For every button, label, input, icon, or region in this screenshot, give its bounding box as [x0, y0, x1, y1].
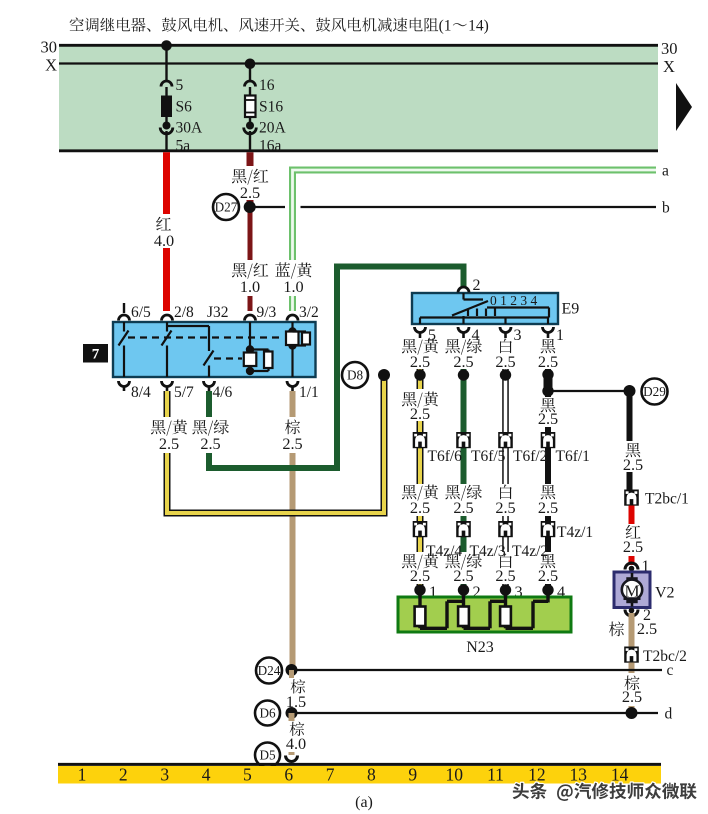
- connector T4z/1: [541, 521, 556, 537]
- svg-text:2.5: 2.5: [538, 498, 558, 517]
- svg-text:16: 16: [259, 77, 275, 94]
- svg-text:9: 9: [408, 765, 417, 785]
- labels row1 under E9 pins: [402, 338, 558, 371]
- svg-text:2: 2: [119, 765, 128, 785]
- svg-text:c: c: [667, 662, 674, 679]
- svg-text:D24: D24: [258, 663, 281, 678]
- svg-text:9/3: 9/3: [257, 304, 277, 321]
- connector T4z/2: [498, 521, 513, 537]
- N23 internal resistor chain: [415, 592, 548, 628]
- wire black 2.5 E9 pin1 to N23 pin4: [545, 338, 551, 592]
- wire gaps for row4 labels: [415, 552, 554, 584]
- junction dot on line d (V2 return): [626, 707, 638, 719]
- wire brown 2.5 from V2 pin 2 to T2bc/2: [629, 613, 635, 647]
- svg-text:4: 4: [472, 327, 480, 344]
- svg-text:2.5: 2.5: [453, 498, 473, 517]
- svg-text:10: 10: [445, 765, 463, 785]
- label 棕 4.0: [286, 721, 306, 753]
- relay actuation dashed link 1: [128, 336, 284, 338]
- relay tag 7: [83, 344, 108, 363]
- svg-text:2.5: 2.5: [622, 687, 642, 706]
- label 红 2.5 (V2 feed): [623, 524, 643, 556]
- svg-text:2.5: 2.5: [538, 566, 558, 585]
- svg-text:2.5: 2.5: [495, 498, 515, 517]
- connector T2bc/1: [624, 490, 639, 506]
- label 棕 1.5: [286, 678, 306, 711]
- svg-text:2.5: 2.5: [495, 566, 515, 585]
- wire b-branch from splice to D29: [548, 390, 630, 392]
- svg-text:D5: D5: [259, 748, 276, 763]
- N23 pin dots: [414, 584, 553, 595]
- svg-text:E9: E9: [562, 301, 580, 318]
- svg-text:T6f/6: T6f/6: [428, 448, 463, 465]
- svg-text:(a): (a): [355, 794, 373, 811]
- node D5: [255, 743, 280, 768]
- svg-text:d: d: [665, 706, 673, 723]
- svg-text:2.5: 2.5: [453, 566, 473, 585]
- svg-text:8/4: 8/4: [131, 384, 151, 401]
- wire black/yellow 2.5 from J32 pin 5/7 to splice D8: [167, 375, 384, 513]
- label 红 4.0: [154, 214, 174, 250]
- labels row4 above N23: [402, 554, 558, 585]
- svg-text:5/7: 5/7: [174, 384, 194, 401]
- svg-text:30A: 30A: [176, 120, 204, 137]
- fuse S6 30A (slot 5): [160, 40, 203, 154]
- svg-text:S16: S16: [259, 99, 283, 116]
- wire brown 4.0 D6 to ground bus: [289, 713, 295, 755]
- svg-text:8: 8: [367, 765, 376, 785]
- wire brown 1.5 D24 to D6: [289, 670, 294, 713]
- svg-text:D29: D29: [643, 384, 666, 399]
- labels row2 below splices: [402, 389, 558, 428]
- splice dot D8: [378, 369, 390, 381]
- svg-text:2.5: 2.5: [538, 352, 558, 371]
- svg-text:b: b: [662, 200, 670, 217]
- svg-text:T4z/1: T4z/1: [557, 524, 593, 541]
- svg-text:V2: V2: [655, 585, 675, 602]
- svg-text:3/2: 3/2: [299, 304, 319, 321]
- svg-text:1.0: 1.0: [283, 277, 303, 296]
- svg-text:1: 1: [556, 327, 564, 344]
- svg-text:6: 6: [284, 765, 293, 785]
- N23 pin numbers 1 2 3 4: [429, 582, 565, 601]
- svg-text:2.5: 2.5: [495, 352, 515, 371]
- svg-text:2.5: 2.5: [637, 619, 657, 638]
- relay internal contact 2/8-5/7: [162, 322, 172, 377]
- svg-text:13: 13: [569, 765, 587, 785]
- bus slot numbers 1-14: [78, 765, 629, 785]
- splice dot D24: [286, 664, 298, 676]
- svg-text:2.5: 2.5: [410, 498, 430, 517]
- watermark 头条@汽修技师众微联: [513, 782, 697, 800]
- blower series resistor N23: housing: [398, 597, 571, 632]
- svg-text:7: 7: [92, 347, 100, 363]
- label 棕 2.5 under 1/1: [282, 417, 302, 453]
- wire blue/yellow 1.0: line a to J32 pin 3/2: [293, 170, 657, 311]
- svg-text:D27: D27: [215, 200, 238, 215]
- svg-text:D8: D8: [347, 368, 364, 383]
- svg-text:4/6: 4/6: [213, 384, 233, 401]
- bus band: battery 30 / ignition X supply rail: [59, 45, 658, 152]
- svg-text:2.5: 2.5: [200, 434, 220, 453]
- E9 pin 2 socket top: [458, 287, 469, 293]
- svg-text:0 1 2 3 4: 0 1 2 3 4: [490, 293, 538, 308]
- wire brown 2.5 from J32 pin 1/1 down to D24: [290, 391, 296, 670]
- relay J32 fresh-air blower relay: housing: [113, 322, 316, 377]
- V2 pin 1 socket: [625, 563, 638, 571]
- svg-text:M: M: [624, 582, 639, 601]
- svg-text:(1: (1: [439, 18, 452, 35]
- svg-text:T2bc/2: T2bc/2: [643, 648, 687, 665]
- wire b (to ground distribution), gap at blue/yellow crossing: [255, 206, 656, 208]
- svg-text:T6f/1: T6f/1: [556, 448, 590, 465]
- relay internal contact 6/5-8/4: [119, 322, 129, 377]
- svg-text:1: 1: [78, 765, 87, 785]
- wire black/red 1.0 from D27 to J32 pin 9/3: [248, 207, 253, 311]
- junction dot at D27: [244, 201, 256, 213]
- svg-text:2.5: 2.5: [410, 352, 430, 371]
- wire red 4.0 from S6 to J32 pin 2/8: [163, 152, 170, 311]
- labels row3 between connectors: [402, 484, 558, 517]
- svg-text:2.5: 2.5: [410, 404, 430, 423]
- connector T4z/3: [456, 521, 471, 537]
- wire brown 2.5 from T2bc/2 to line d: [629, 663, 635, 714]
- J32 pin sockets top: [119, 303, 299, 321]
- ground bus entry cup: [286, 756, 298, 762]
- connector T6f/2: [498, 432, 513, 448]
- wire black/green 2.5 from J32 pin 4/6 to E9 pin 2: [209, 267, 464, 469]
- V2 pin 2 socket: [625, 608, 638, 616]
- label 黑 2.5 (D29 branch): [623, 441, 643, 474]
- svg-text:T2bc/1: T2bc/1: [645, 491, 689, 508]
- svg-text:X: X: [663, 57, 675, 76]
- connector T6f/1: [541, 432, 556, 448]
- label 黑/黄 2.5 under 5/7: [151, 417, 187, 453]
- connector T6f/5: [456, 432, 471, 448]
- svg-text:N23: N23: [466, 639, 494, 656]
- connector T4z/4: [413, 521, 428, 537]
- svg-text:30: 30: [661, 39, 678, 58]
- svg-text:3: 3: [160, 765, 169, 785]
- svg-text:11: 11: [487, 765, 504, 785]
- blower switch E9: housing: [412, 293, 558, 324]
- wire black 2.5 from D29 splice to T2bc/1: [627, 391, 633, 490]
- node D27: [213, 194, 239, 220]
- svg-text:6/5: 6/5: [131, 304, 151, 321]
- splice dot D6: [286, 707, 298, 719]
- fresh air blower motor V2: [614, 572, 650, 608]
- wire white 2.5 E9 pin3 to N23 pin3: [502, 338, 509, 592]
- svg-text:T6f/5: T6f/5: [471, 448, 506, 465]
- relay internal contact branch to 4/6: [167, 326, 214, 377]
- node D6: [255, 701, 280, 726]
- svg-text:2.5: 2.5: [240, 183, 260, 202]
- svg-text:2/8: 2/8: [174, 304, 194, 321]
- svg-text:T6f/2: T6f/2: [513, 448, 547, 465]
- fuse S16 20A (slot 16): [244, 59, 287, 155]
- node D24: [256, 658, 282, 684]
- splice dots on four columns: [414, 369, 553, 397]
- wire c from D24: [292, 669, 663, 671]
- svg-text:5: 5: [176, 77, 184, 94]
- svg-text:2.5: 2.5: [538, 409, 558, 428]
- svg-text:J32: J32: [207, 304, 229, 321]
- svg-text:2.5: 2.5: [282, 434, 302, 453]
- svg-text:X: X: [45, 56, 57, 75]
- label 蓝/黄 1.0: [275, 260, 311, 296]
- svg-text:2: 2: [473, 277, 481, 294]
- label 棕 2.5 (V2 return): [609, 619, 657, 638]
- svg-text:4.0: 4.0: [154, 231, 174, 250]
- J32 pin sockets bottom: [119, 381, 299, 391]
- relay coil near 3/2 with parallel resistor: [286, 322, 310, 377]
- svg-text:2.5: 2.5: [623, 455, 643, 474]
- label 黑/红 1.0: [232, 260, 268, 296]
- svg-text:5: 5: [243, 765, 252, 785]
- svg-text:5a: 5a: [176, 138, 191, 155]
- wire black/green 2.5 E9 pin4 to N23 pin2: [461, 338, 467, 592]
- E9 internals: wiper and contacts 0 1 2 3 4: [420, 293, 549, 324]
- label 黑/红 2.5: [232, 166, 268, 202]
- wire red 2.5 from T2bc/1 to V2 pin 1: [629, 506, 635, 566]
- svg-text:a: a: [662, 163, 669, 180]
- svg-text:2.5: 2.5: [410, 566, 430, 585]
- svg-text:4: 4: [202, 765, 211, 785]
- svg-text:30: 30: [41, 38, 58, 57]
- wire black/red 2.5 from S16 to node D27: [247, 152, 254, 207]
- svg-text:14): 14): [468, 18, 489, 35]
- ground bus bar 1-14: [58, 764, 661, 783]
- svg-text:4.0: 4.0: [286, 734, 306, 753]
- E9 bottom sockets pins 5 4 3 1: [415, 327, 554, 338]
- relay actuation dashed link 2: [214, 357, 242, 359]
- svg-text:S6: S6: [176, 99, 193, 116]
- svg-text:2.5: 2.5: [453, 352, 473, 371]
- relay coil near 9/3 with parallel resistor: [244, 322, 273, 375]
- splice dot at D29: [624, 385, 636, 397]
- arrow (continuation): [676, 83, 692, 131]
- node D8: [342, 362, 368, 388]
- svg-text:1/1: 1/1: [299, 384, 319, 401]
- node D29: [642, 379, 668, 405]
- label 黑/绿 2.5 under 4/6: [192, 417, 228, 453]
- connector T2bc/2: [624, 647, 639, 663]
- wire d from D6: [292, 712, 659, 714]
- connector T6f/6: [413, 432, 428, 448]
- svg-text:1.0: 1.0: [240, 277, 260, 296]
- label 棕 2.5 (to d): [622, 673, 642, 706]
- svg-text:12: 12: [528, 765, 546, 785]
- svg-text:2.5: 2.5: [159, 434, 179, 453]
- svg-text:20A: 20A: [259, 120, 287, 137]
- svg-text:16a: 16a: [259, 138, 282, 155]
- title: 空调继电器、鼓风电机、风速开关、鼓风电机减速电阻(1～14): [70, 17, 489, 34]
- svg-text:7: 7: [326, 765, 335, 785]
- wire black/yellow 2.5 E9 pin5 to N23 pin1: [417, 338, 424, 592]
- svg-text:2.5: 2.5: [623, 537, 643, 556]
- svg-text:3: 3: [514, 327, 522, 344]
- svg-text:D6: D6: [259, 706, 276, 721]
